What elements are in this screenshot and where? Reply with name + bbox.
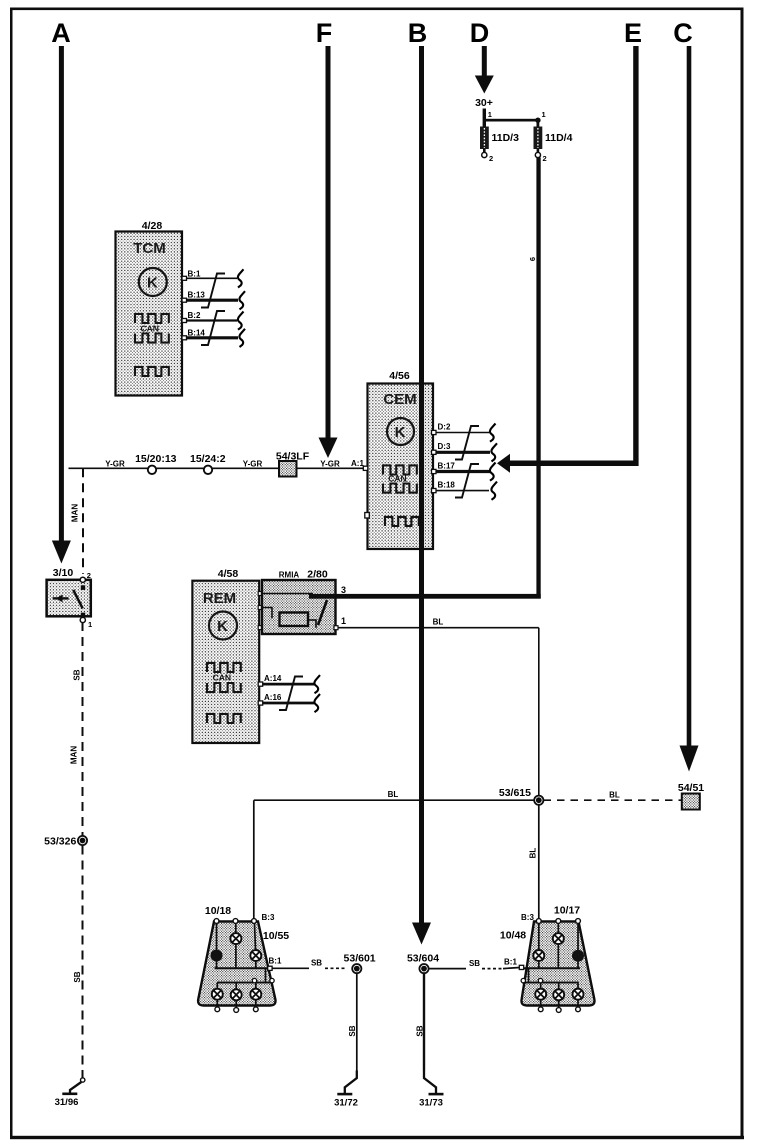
svg-text:Y-GR: Y-GR [105, 460, 125, 469]
CEM pin B:18 [432, 481, 490, 493]
wire dashed SB from 3/10 pin 1 [82, 622, 84, 836]
fuse 11D/3 label [492, 132, 520, 144]
CEM pair 1 twist [455, 426, 479, 460]
svg-text:15/24:2: 15/24:2 [190, 453, 226, 465]
CEM pair 2 twist [455, 464, 479, 498]
TCM pair 1 hooks [238, 269, 245, 309]
TCM pin B:1 [182, 270, 237, 281]
svg-text:10/17: 10/17 [554, 905, 580, 917]
wire dashed MAN down from Y-GR run [82, 468, 84, 574]
REM pin A:14 [258, 674, 314, 686]
svg-text:B: B [408, 18, 428, 48]
svg-text:K: K [147, 275, 158, 292]
svg-text:BL: BL [388, 790, 399, 799]
REM pair twist [279, 677, 303, 711]
connector 54/51 [678, 782, 704, 810]
svg-text:A: A [51, 18, 71, 48]
ground 31/73 [419, 1071, 443, 1109]
connector 54/3LF [276, 451, 310, 477]
node E label [624, 18, 642, 48]
svg-text:6: 6 [528, 257, 537, 261]
pin A:1 label [351, 459, 364, 468]
svg-text:RMIA: RMIA [279, 571, 300, 580]
wire Y-GR horizontal run to CEM A:1 [69, 467, 364, 469]
wire label SB 1 [73, 669, 82, 680]
svg-text:4/56: 4/56 [389, 370, 410, 382]
svg-text:53/326: 53/326 [44, 836, 76, 848]
lamp cluster 10/48 10/17 [500, 905, 595, 1009]
wire label BL 2 [609, 791, 620, 800]
svg-text:1: 1 [542, 110, 546, 119]
CEM pin D:3 [432, 442, 491, 454]
bottom pins 10/17 [538, 1007, 580, 1013]
lamp bulbs bottom row 10/17 [535, 989, 583, 1001]
wire label MAN 2 [70, 746, 79, 764]
pin B:3 label right cluster [521, 913, 534, 922]
svg-text:REM: REM [203, 590, 236, 607]
pin 1 label fuse 11D/3 [488, 110, 492, 119]
svg-text:CAN: CAN [388, 474, 406, 484]
relay pin 3 wire (thick feed to 11D/4) [309, 585, 541, 599]
splice 15/24:2 [190, 453, 226, 474]
svg-text:B:1: B:1 [269, 957, 282, 966]
node D label [470, 18, 490, 48]
svg-text:D:3: D:3 [438, 442, 451, 451]
svg-text:3/10: 3/10 [53, 567, 74, 579]
node A label [51, 18, 71, 48]
node C label [673, 18, 693, 48]
svg-text:31/72: 31/72 [334, 1098, 358, 1109]
CEM pin B:17 [432, 461, 491, 473]
svg-text:4/58: 4/58 [218, 568, 239, 580]
node 30+ label [475, 97, 493, 109]
svg-text:31/73: 31/73 [419, 1098, 443, 1109]
wire label BL 3 [529, 848, 538, 859]
svg-text:B:18: B:18 [438, 481, 456, 490]
wire SB to right cluster [429, 959, 520, 969]
wire label SB 2 [73, 971, 82, 982]
wire label SB vertical 31/73 [415, 1025, 424, 1036]
junction at 11D/4 pin 1 [535, 118, 540, 123]
svg-text:SB: SB [311, 959, 322, 968]
svg-text:K: K [395, 424, 406, 441]
svg-text:K: K [217, 618, 228, 635]
svg-text:B:1: B:1 [504, 958, 517, 967]
svg-text:MAN: MAN [70, 746, 79, 764]
svg-text:D:2: D:2 [438, 423, 451, 432]
svg-text:B:1: B:1 [188, 270, 201, 279]
switch 3/10 [47, 567, 93, 629]
svg-text:11D/4: 11D/4 [545, 132, 573, 144]
svg-text:A:1: A:1 [351, 459, 364, 468]
svg-text:Y-GR: Y-GR [243, 460, 263, 469]
wire 30+ to fuse 11D/3 [483, 109, 486, 128]
relay 2/80 RMIA [262, 569, 336, 635]
CEM pin A:1 [363, 466, 368, 470]
node B label [408, 18, 428, 48]
svg-text:10/55: 10/55 [263, 930, 289, 942]
svg-text:SB: SB [469, 959, 480, 968]
fuse 11D/4 label [545, 132, 573, 144]
wire BL left branch to lamp cluster 10/18 [254, 800, 534, 920]
fuse 11D/3 [480, 127, 489, 158]
pin B:1 left cluster [268, 957, 282, 971]
svg-text:Y-GR: Y-GR [320, 460, 340, 469]
ground 31/72 [334, 1071, 358, 1109]
pin 2 label fuse 11D/4 [543, 154, 547, 163]
svg-text:4/28: 4/28 [142, 220, 163, 232]
pin 2 label fuse 11D/3 [489, 154, 493, 163]
lamp bulb filled 10/18 [211, 950, 223, 962]
svg-text:B:13: B:13 [188, 291, 206, 300]
svg-text:10/18: 10/18 [205, 905, 231, 917]
lamp bulb left 10/48 [533, 950, 544, 961]
connector junction 53/615 [499, 787, 544, 805]
TCM pair 2 hooks [238, 312, 245, 348]
svg-text:TCM: TCM [133, 240, 166, 257]
svg-text:BL: BL [433, 618, 444, 627]
svg-text:F: F [316, 18, 333, 48]
wire bus A (thick feed with arrow) [52, 46, 71, 564]
svg-text:2: 2 [489, 154, 493, 163]
svg-text:D: D [470, 18, 490, 48]
wire bus E (thick with left arrow into CEM B:17) [497, 46, 639, 473]
svg-text:1: 1 [488, 110, 492, 119]
wire label MAN 1 [71, 504, 80, 522]
lamp cluster 10/18 10/55 [198, 905, 289, 1008]
wire label 6 [528, 257, 537, 261]
relay pin 1 wire to 53/615 [334, 616, 539, 796]
lamp bulbs bottom row 10/18 [212, 989, 261, 1001]
svg-text:CEM: CEM [383, 391, 416, 408]
svg-text:SB: SB [415, 1025, 424, 1036]
svg-text:1: 1 [341, 616, 346, 626]
svg-text:15/20:13: 15/20:13 [135, 453, 177, 465]
control module CEM 4/56 [365, 370, 433, 549]
TCM pin B:14 [182, 328, 238, 340]
svg-text:B:3: B:3 [262, 913, 275, 922]
svg-text:53/604: 53/604 [407, 953, 439, 965]
wire branch to fuse 11D/4 [483, 119, 539, 127]
TCM pin B:13 [182, 291, 238, 303]
svg-text:MAN: MAN [71, 504, 80, 522]
svg-text:B:2: B:2 [188, 311, 201, 320]
wire down to ground 31/73 [423, 973, 425, 1070]
wire label Y-GR 2 [243, 460, 263, 469]
svg-text:2: 2 [543, 154, 547, 163]
REM pin A:16 [258, 693, 314, 705]
svg-text:SB: SB [348, 1025, 357, 1036]
wire bus D (thick feed with arrow) [475, 46, 494, 94]
wire bus C (thick with arrow down to 54/51) [680, 46, 699, 772]
bottom pins 10/18 [215, 1007, 258, 1013]
control module REM 4/58 [192, 568, 259, 743]
CEM pair 1 hooks [490, 424, 497, 462]
TCM pair 2 twist [201, 311, 225, 345]
svg-text:E: E [624, 18, 642, 48]
node F label [316, 18, 333, 48]
lamp bulb top 10/18 [230, 933, 241, 944]
svg-text:CAN: CAN [213, 673, 231, 683]
svg-text:A:14: A:14 [264, 674, 282, 683]
svg-text:53/615: 53/615 [499, 787, 531, 799]
svg-text:30+: 30+ [475, 97, 493, 109]
REM pair hooks [314, 675, 320, 712]
wire label SB vertical 31/72 [348, 1025, 357, 1036]
svg-text:BL: BL [529, 848, 538, 859]
TCM pin B:2 [182, 311, 237, 323]
wire SB to 53/601 [272, 959, 346, 969]
connector 53/326 [44, 836, 87, 848]
svg-text:B:17: B:17 [438, 461, 456, 470]
svg-text:SB: SB [73, 971, 82, 982]
fuse 11D/4 [534, 127, 543, 158]
pin B:1 right cluster [504, 958, 524, 970]
svg-text:BL: BL [609, 791, 620, 800]
svg-text:10/48: 10/48 [500, 930, 526, 942]
pin 1 label fuse 11D/4 [542, 110, 546, 119]
svg-text:2: 2 [87, 571, 91, 580]
connector 53/604 [407, 953, 439, 974]
CEM pin D:2 [432, 423, 490, 435]
wire down to ground 31/72 [356, 973, 358, 1070]
wire label BL 1 [388, 790, 399, 799]
wire dashed to ground 31/96 [82, 846, 84, 1071]
CEM pair 2 hooks [490, 463, 497, 500]
wire bus B (thick with arrow down to 53/604) [412, 46, 431, 945]
connector 53/601 [344, 953, 376, 974]
svg-text:54/51: 54/51 [678, 782, 704, 794]
ground 31/96 [55, 1070, 85, 1108]
REM-relay interconnect pins [258, 592, 262, 630]
svg-text:B:14: B:14 [188, 328, 206, 337]
lamp bulb filled 10/17 [572, 950, 584, 962]
pin B:3 label left cluster [262, 913, 275, 922]
wire bus F (thick feed with arrow) [319, 46, 338, 458]
lamp bulb right 10/55 [250, 950, 261, 961]
svg-text:C: C [673, 18, 693, 48]
splice 15/20:13 [135, 453, 177, 474]
control module TCM 4/28 [116, 220, 183, 396]
svg-text:2/80: 2/80 [307, 569, 328, 581]
svg-text:53/601: 53/601 [344, 953, 376, 965]
wire fuse 11D/4 down to relay feed [536, 158, 540, 599]
svg-text:1: 1 [88, 620, 92, 629]
wire label Y-GR 1 [105, 460, 125, 469]
wire dashed BL to 54/51 [544, 799, 682, 801]
lamp bulb top 10/17 [553, 933, 564, 944]
svg-text:SB: SB [73, 669, 82, 680]
svg-text:3: 3 [341, 585, 346, 595]
svg-text:11D/3: 11D/3 [492, 132, 520, 144]
svg-text:31/96: 31/96 [55, 1097, 79, 1108]
svg-text:CAN: CAN [140, 324, 158, 334]
TCM pair 1 twist [201, 274, 225, 308]
wire label Y-GR 3 [320, 460, 340, 469]
svg-text:A:16: A:16 [264, 693, 282, 702]
svg-text:B:3: B:3 [521, 913, 534, 922]
wire BL down to lamp cluster 10/17 [538, 805, 540, 920]
